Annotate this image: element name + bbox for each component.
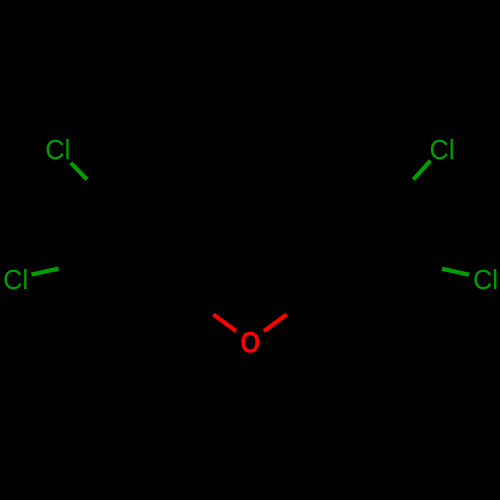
svg-text:Cl: Cl [3, 263, 28, 295]
svg-text:O: O [240, 326, 260, 359]
bond Cl-C3 mid-left half stub [32, 269, 59, 275]
bond O-C4a left half stub [213, 314, 236, 331]
bond Cl-C7 mid-right half stub [442, 269, 469, 275]
bond O-C5a right half stub [264, 314, 287, 331]
bond Cl-C8 top-right half stub [413, 161, 430, 180]
svg-text:Cl: Cl [473, 263, 498, 295]
bond Cl-C2 top-left half stub [71, 163, 87, 180]
svg-text:Cl: Cl [430, 133, 455, 165]
svg-text:Cl: Cl [45, 133, 70, 165]
